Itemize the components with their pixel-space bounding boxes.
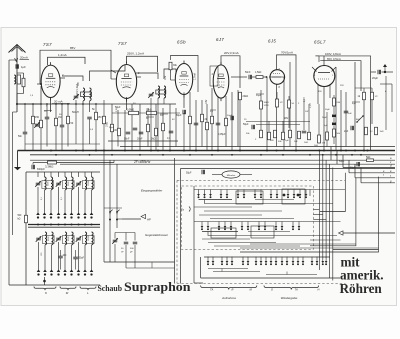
RR chain 05M 10k [106,106,181,127]
label texture b [36,111,62,128]
svg-text:7S7: 7S7 [43,42,52,47]
svg-text:70V/1mA: 70V/1mA [281,50,293,54]
wire corner v2 [310,178,356,246]
switch row2 wires [194,222,341,239]
capacitor C22 50uF [350,162,360,170]
resistor R19 [225,118,228,126]
resistor R10 [147,124,150,132]
resistor R21 10k [260,90,270,130]
svg-text:50nF: 50nF [124,138,130,141]
resistor R11 5k [151,128,158,140]
svg-text:1,7mA: 1,7mA [194,73,197,80]
wire corner v1 [320,173,345,212]
capacitor C15 50nF [245,71,252,79]
tube V2 7S7 [116,62,136,102]
coil mid bus [28,225,100,228]
svg-text:65V, 0,5mA: 65V, 0,5mA [327,57,341,61]
svg-text:50mH: 50mH [72,111,79,114]
svg-text:5kΩ: 5kΩ [366,156,371,159]
label 85V [70,46,75,50]
wire hp block [104,151,117,263]
svg-text:85V: 85V [70,46,75,50]
fan labels [390,157,392,183]
bottom labels [210,288,320,292]
svg-text:20V,3,3mA: 20V,3,3mA [224,51,239,55]
wire mesh under V1 [33,104,68,151]
wire V4 supply [221,56,240,88]
text amerik [340,268,384,283]
svg-text:100V,1,2mA: 100V,1,2mA [76,83,79,96]
resistor R1 [17,73,25,94]
wire ant join [16,86,41,105]
svg-text:90V: 90V [160,115,164,117]
label 50uF mid [186,170,205,175]
label 160V [325,52,341,56]
wire corner v3 [240,177,379,252]
resistor R9 [111,124,114,132]
svg-text:5kΩ: 5kΩ [151,138,156,141]
capacitor C13 [216,123,221,125]
capacitor C6 50nF [124,132,130,140]
outer solid box [175,158,396,284]
switch row1 [197,190,307,199]
coil labels row1 [41,180,90,200]
svg-text:6J5: 6J5 [268,39,276,44]
capacitor C24 250uF [73,250,84,270]
label 50mH [72,111,79,114]
IF transformer T1 [78,81,92,100]
label 2F488 [133,160,164,164]
label 1,2mA [58,53,67,57]
svg-text:50µF: 50µF [109,127,115,129]
svg-text:35V: 35V [318,91,322,93]
label 005uF [218,133,226,136]
svg-text:6J7: 6J7 [216,37,224,42]
svg-text:1M: 1M [322,143,325,145]
resistor R35 1M [322,112,329,147]
svg-text:20mA: 20mA [20,56,28,60]
bus 3 upper [120,146,395,148]
svg-text:2,5V: 2,5V [116,107,118,112]
wire V2 pins [111,70,141,77]
wire V1 cathode down [46,98,51,113]
capacitor C10 trim [148,92,154,98]
svg-text:TA: TA [210,288,213,292]
wire mid v2 [104,244,175,268]
svg-text:6Sb: 6Sb [177,40,186,45]
resistor R7 150k [98,100,106,151]
svg-text:50µF: 50µF [339,161,345,163]
label 50mA2 [92,108,95,111]
resistor R13 30k [169,62,178,73]
svg-text:1,2V: 1,2V [304,97,306,102]
svg-text:kΩ: kΩ [18,219,21,221]
resistor R5 [67,116,74,125]
arrow marker ant [15,58,27,69]
wire h104 row [17,103,96,105]
capacitor C2 [45,117,50,119]
svg-text:12000: 12000 [88,235,90,241]
svg-text:H: H [318,288,320,292]
svg-text:10kΩ: 10kΩ [264,102,270,104]
box V4 grid shield [210,66,218,86]
dashed inner box [182,186,314,250]
resistor R34 1k [314,104,321,147]
svg-text:0,5MΩ: 0,5MΩ [127,109,134,112]
svg-text:50µF: 50µF [227,115,233,117]
label 1,2V [304,97,306,102]
wire left vert 2 [12,112,14,235]
bus fan right [30,160,395,183]
resistor R4 1M [55,116,62,126]
capacitor C17b [332,118,336,126]
svg-text:Röhren: Röhren [340,281,383,296]
svg-text:Ü: Ü [271,288,273,292]
svg-text:1kΩ: 1kΩ [380,131,384,133]
wires right verticals [319,151,332,281]
svg-text:20nF: 20nF [137,138,143,141]
svg-text:Mikrofon: Mikrofon [227,174,236,177]
svg-text:Gegentaktdrossel: Gegentaktdrossel [145,233,168,237]
microphone [212,171,252,178]
svg-text:10V: 10V [205,99,208,104]
svg-text:250µF: 250µF [78,258,85,260]
IF coils row1 [35,177,94,190]
resistor R28 [285,130,292,142]
tube V5 6J5 [270,60,285,92]
wire V1 supply 1,2mA [48,57,86,65]
label 1,1V [310,103,312,108]
svg-text:1µF: 1µF [21,65,26,69]
resistor R33 50k [333,126,341,145]
resistor R15 [201,114,208,122]
tube V4 6J7 [213,62,229,101]
resistor R42 500k [18,215,28,223]
resistor R26 [270,130,277,142]
bottom row wires [201,257,340,278]
wires bottom horizontals [240,240,379,248]
switch row1 wires [194,189,345,204]
wire 85V rail [40,50,116,84]
svg-text:150: 150 [98,116,103,119]
capacitor C21 630pF [32,163,45,172]
svg-text:2nF: 2nF [348,113,352,115]
wire h104b [96,103,176,105]
svg-text:R: R [232,288,234,292]
tube V1 7S7 [41,62,60,100]
trimmer feed wires [115,233,135,241]
resistor R27 [278,132,285,143]
resistor R36 1k [358,92,366,100]
label 20mA in [20,56,30,60]
svg-text:TA: TA [295,288,298,292]
wire V4 mesh [212,88,238,151]
capacitor C8 20nF [137,132,143,140]
resistor R30 [304,132,311,144]
wire h144 row [25,143,100,145]
trimmer under V1 [34,122,40,128]
text Schaub [98,284,123,293]
svg-text:1,1V: 1,1V [310,103,312,108]
resistor R12 [162,123,165,131]
capacitor C3b 50nF [18,104,27,151]
tick marks mesh [44,94,360,117]
svg-text:7S7: 7S7 [118,41,127,46]
label 2F pos fix [0,0,1,1]
label texture a [76,83,79,96]
resistor R22 [276,92,284,107]
resistor R25 [268,132,271,140]
svg-text:20µF: 20µF [372,76,378,80]
junction row1 [36,212,93,218]
IF transformer T2 [156,86,166,98]
wire V3 mesh [171,73,208,151]
label texture h [30,95,136,131]
wire V3 top box [171,56,199,93]
label texture e [210,111,247,121]
tube label 6J5 [268,39,276,44]
labels bias [322,109,331,127]
svg-text:2µF: 2µF [344,130,349,133]
coilbus junction dots [37,224,93,226]
svg-text:90V: 90V [284,117,289,120]
svg-text:50µF: 50µF [176,114,182,117]
resistor R14 [189,116,192,124]
resistor R31 240k [333,95,341,106]
label Aufnahme [221,296,236,300]
main bus 2 [30,154,395,156]
IF coils row2 [36,232,94,245]
svg-text:2F=488kHz: 2F=488kHz [133,160,151,164]
resistor R23 50k [288,96,295,128]
svg-text:1,2mA: 1,2mA [58,53,67,57]
resistor R24 [255,130,263,141]
bottom braces [201,286,319,290]
label 20V 3,3mA [224,51,239,55]
wire V6 supply1 [315,56,370,70]
text mit [341,254,361,269]
coil row2 stems [39,242,92,270]
svg-text:1kΩ: 1kΩ [304,142,308,144]
wire V5 mesh [267,60,296,151]
label 50uF b [339,161,345,163]
resistor R16 [206,122,209,130]
main bus thick [18,150,396,152]
svg-text:MΩ: MΩ [270,140,274,142]
label 90V [284,117,289,120]
svg-text:13000: 13000 [88,180,90,186]
tube label 6J7 [216,37,224,42]
resistor R37 [371,92,379,100]
label 50uF z [243,123,255,129]
tube label 7S7 [43,42,52,47]
bottom row contacts [207,257,328,266]
svg-text:8kΩ: 8kΩ [356,119,360,121]
connector Ta [181,207,190,212]
wire V6 mesh [318,67,346,151]
tube label 6Sb [177,40,186,45]
capacitor C4 trim [73,94,79,100]
coil row1 stems [38,187,92,213]
tube label 7S7 [118,41,127,46]
svg-text:Schaub: Schaub [98,284,123,293]
wires v z [269,100,309,132]
wire h141 [108,140,178,142]
coil labels row2 [41,235,90,256]
svg-text:160V, 4,8mA: 160V, 4,8mA [325,52,341,56]
resistor R8 [113,128,121,136]
svg-text:1nF: 1nF [36,126,40,128]
label 70V 1mA [281,50,293,54]
svg-text:50µF: 50µF [186,172,192,175]
resistor R39 [375,127,384,135]
fan corner verticals [331,147,361,183]
capacitor C16 [302,131,307,133]
svg-text:1,5kΩ: 1,5kΩ [255,71,262,74]
wires T1 [62,65,125,151]
svg-text:0,05µF: 0,05µF [218,133,226,136]
switch row2 [201,222,301,231]
wire right mesh [355,76,392,151]
antenna lead wire [16,60,18,112]
capacitor C11 50uF [176,110,186,151]
capacitor C5 [87,117,92,144]
label texture f [256,95,309,113]
junction row2 [37,269,94,275]
svg-text:50n: 50n [18,135,23,138]
svg-text:Eingangswähler: Eingangswähler [141,189,163,193]
svg-text:3,3MΩ: 3,3MΩ [45,165,53,169]
resistor R41 5k [366,156,374,162]
label 10V [205,99,208,104]
wire left vert 1 [8,60,10,285]
svg-text:50µF: 50µF [256,95,262,97]
svg-text:630pF: 630pF [37,167,45,171]
label 20 mA [52,100,70,104]
resistor R6 [95,104,98,151]
labels K M L [45,291,89,295]
wire V1 grid stub [37,73,65,85]
ground main [14,151,21,171]
svg-text:Ta: Ta [181,208,184,212]
label 127V [164,75,167,80]
wire coil bottom [26,277,100,285]
antenna [9,45,26,61]
h104 junction dots [16,103,97,105]
capacitor C18 2nF [344,111,353,115]
capacitor C17a [332,106,336,117]
label 1,2mA v3 [194,73,197,80]
arrow mid right [339,231,396,235]
wire mit box [333,248,379,250]
resistor R2 [32,116,35,124]
label 250V 1,2mA [127,52,144,56]
capacitor C23 100 [58,250,67,270]
wire mesh under V2 [112,104,176,151]
wire h121 [246,121,310,123]
capacitor C7 [133,128,138,130]
svg-text:50nF: 50nF [245,71,251,74]
label 65V [327,57,341,61]
wires T2 [136,69,176,151]
capacitor C3 [60,125,65,127]
wire right rail [370,70,372,151]
trimmers mid [112,238,137,253]
contact pair mid [104,208,122,221]
capacitor C1b [16,64,19,68]
resistor R29 [294,131,301,143]
capacitor C14 50uF2 [231,116,234,120]
wire left vert join [9,60,26,285]
bus junction dots [50,150,369,152]
svg-text:6SL7: 6SL7 [314,40,326,45]
label texture c [109,107,118,129]
tube label 6SL7 [314,40,326,45]
svg-text:2nF: 2nF [294,141,298,143]
resistor R18 [211,116,214,124]
wire V6 supply2 [320,61,361,91]
braces bands [34,287,96,291]
text Supraphon [124,280,191,294]
resistor R20 15k [255,71,263,78]
labels e f [383,170,385,177]
svg-text:1µF: 1µF [285,140,289,142]
svg-text:250V, 1,2mA: 250V, 1,2mA [127,52,144,56]
svg-text:50µF: 50µF [350,167,356,170]
svg-text:12V: 12V [164,75,167,80]
capacitor C9 01uF [167,131,173,140]
label Eingangswaehler [141,189,163,193]
wire V5 supply [277,55,297,60]
switch S2 [356,115,364,123]
wire coil left v [25,172,27,285]
tube V6 6SL7 [312,56,336,95]
svg-text:50µF: 50µF [325,109,331,111]
svg-text:Supraphon: Supraphon [124,280,191,294]
resistor R17 20k [239,92,249,150]
svg-text:20µF: 20µF [322,117,328,119]
label texture d [146,115,175,121]
resistor R3 [35,116,43,128]
dashed box outer [177,180,346,283]
wire h124 [256,124,300,126]
svg-text:20 mA: 20 mA [54,100,63,104]
label texture i [246,85,344,135]
coil drops [38,172,92,177]
resistor R38 [365,127,374,135]
text Roehren [340,281,383,296]
svg-text:4µF: 4µF [352,103,356,105]
wire coupling [231,76,267,78]
coil L1 [14,75,20,84]
switch row2 interrow [202,239,300,246]
tube V3 6Sb [175,61,192,98]
switch interrow wires [194,207,294,219]
label Gegentaktdrossel [145,233,168,237]
bus2 junction dots [55,154,362,156]
svg-text:20kΩ: 20kΩ [243,95,249,98]
wire V2 supply rail [127,56,158,72]
connector HP [117,214,151,221]
svg-text:50µF: 50µF [243,123,249,126]
svg-text:Wiedergabe: Wiedergabe [281,296,298,300]
resistor R40 3,3M [33,160,114,168]
label texture g [352,91,387,121]
svg-text:Aufnahme: Aufnahme [221,296,236,300]
capacitor C12 [194,123,199,125]
capacitor C20 2uF [344,126,354,133]
stub wires right [313,210,326,220]
